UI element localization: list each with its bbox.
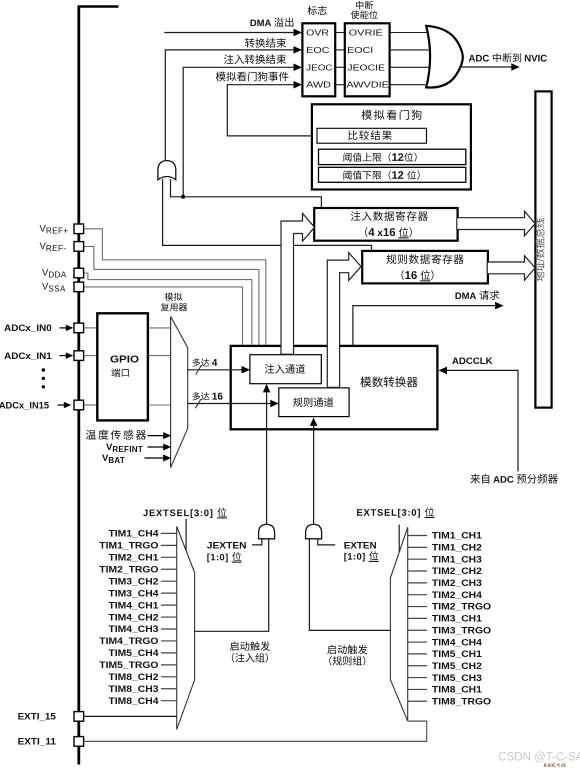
- hollow arrow regular channels to regular data register: [327, 253, 361, 388]
- svg-text:TIM2_TRGO: TIM2_TRGO: [432, 602, 491, 612]
- box injected data registers: [314, 208, 457, 241]
- wire TIM8_CH4 to injected trigger mux: [161, 700, 177, 702]
- label analog mux line2: [161, 303, 187, 311]
- label interrupt enable header line2: [351, 10, 378, 19]
- svg-text:AWVDIE: AWVDIE: [346, 80, 389, 90]
- wire OVR to OVRIE: [335, 32, 345, 34]
- wire TIM2_TRGO to injected trigger mux: [161, 568, 177, 570]
- and-gate JEXTEN injected trigger: [259, 524, 275, 538]
- svg-text:TIM3_CH2: TIM3_CH2: [108, 576, 158, 586]
- wire arrow ADCx_IN1: [60, 355, 67, 357]
- wire left bus top horizontal: [78, 5, 119, 8]
- wire GPIO to analog mux ch1: [148, 355, 171, 357]
- svg-text:OVRIE: OVRIE: [349, 28, 384, 38]
- svg-text:CSDN @T-C-SAH: CSDN @T-C-SAH: [498, 752, 580, 764]
- label analog to digital converter: [360, 377, 417, 388]
- wire VREFINT to mux: [148, 446, 165, 448]
- box analog watchdog: [312, 104, 471, 189]
- svg-text:ADCx_IN0: ADCx_IN0: [4, 323, 52, 333]
- wire TIM5_CH3 to regular trigger mux: [408, 677, 427, 679]
- pin EXTI_15: [74, 712, 84, 722]
- wire TIM5_CH2 to regular trigger mux: [408, 665, 427, 667]
- svg-text:TIM5_CH1: TIM5_CH1: [432, 649, 482, 659]
- wire JEXTSEL select line: [185, 519, 187, 551]
- label start trigger regular line1: [327, 645, 367, 654]
- svg-text:TIM5_CH4: TIM5_CH4: [108, 648, 158, 658]
- wire TIM1_CH2 to regular trigger mux: [408, 546, 427, 548]
- node JEOC junction dot: [181, 195, 185, 199]
- label low threshold (12 bits): [343, 170, 419, 179]
- svg-text:TIM8_CH4: TIM8_CH4: [108, 696, 158, 706]
- box regular data register: [362, 251, 488, 284]
- pin VREF-: [74, 242, 84, 252]
- or-gate U2 end-of-conversion: [158, 161, 176, 180]
- hollow arrow regular data register to bus: [487, 256, 535, 280]
- label 16 bits: [401, 270, 433, 281]
- svg-text:TIM2_CH3: TIM2_CH3: [432, 578, 482, 588]
- slash up-to-4: [196, 365, 202, 374]
- svg-text:TIM1_CH2: TIM1_CH2: [432, 543, 482, 553]
- wire ADCx_IN0 pin to GPIO: [84, 327, 98, 329]
- label injected channels: [265, 364, 305, 373]
- wire injected trigger gate to injected channels: [266, 391, 268, 524]
- wire TIM1_CH4 to injected trigger mux: [161, 532, 177, 534]
- bus bar address/data bus: [535, 91, 551, 407]
- label regular channels: [293, 397, 333, 407]
- svg-text:TIM4_TRGO: TIM4_TRGO: [99, 636, 158, 646]
- label analog watchdog: [362, 110, 422, 120]
- wire JEXTEN to gate: [252, 539, 262, 545]
- hollow arrow injected channels to injected data registers: [281, 213, 315, 354]
- box GPIO port: [97, 313, 148, 420]
- wire TIM1_CH1 to regular trigger mux: [408, 535, 427, 537]
- svg-text:TIM5_CH2: TIM5_CH2: [432, 661, 482, 671]
- svg-text:TIM5_CH3: TIM5_CH3: [432, 673, 482, 683]
- wire VBAT to mux: [145, 457, 165, 459]
- label temperature sensor: [86, 430, 146, 440]
- wire EXTI_11 to regular trigger mux: [84, 721, 427, 741]
- box flags: [302, 23, 335, 96]
- wire JEOCIE to or-gate: [390, 66, 430, 68]
- svg-text:TIM2_CH2: TIM2_CH2: [432, 566, 482, 576]
- wire VDDA to ADC: [84, 273, 252, 345]
- pin ADCx_IN0: [74, 323, 84, 333]
- wire TIM4_CH1 to injected trigger mux: [161, 604, 177, 606]
- wire JEOC injected-conversion-end to JEOC flag: [183, 67, 295, 197]
- box low threshold: [319, 167, 466, 182]
- wire DMA overflow to OVR flag: [164, 32, 295, 34]
- wire analog watchdog event to AWD flag: [227, 85, 312, 136]
- label compare result: [348, 130, 391, 140]
- wire TIM3_TRGO to regular trigger mux: [408, 629, 427, 631]
- wire GPIO to analog mux ch0: [148, 327, 171, 329]
- wire TIM5_TRGO to injected trigger mux: [161, 664, 177, 666]
- label EXTSEL bits: [357, 507, 434, 518]
- svg-text:TIM4_CH3: TIM4_CH3: [108, 624, 158, 634]
- svg-text:ADCCLK: ADCCLK: [452, 356, 493, 366]
- label JEXTSEL bits: [143, 508, 227, 519]
- label flags header: [307, 6, 326, 15]
- wire ADCCLK from prescaler: [445, 370, 518, 471]
- wire TIM4_CH4 to regular trigger mux: [408, 641, 427, 643]
- wire OVRIE to or-gate: [390, 32, 429, 34]
- wire VSSA to ADC: [84, 287, 243, 345]
- label ADC interrupt to NVIC: [469, 53, 547, 62]
- box compare result: [317, 128, 427, 143]
- slash up-to-16: [196, 399, 202, 408]
- label JEXTEN bits: [207, 552, 241, 563]
- svg-text:AWD: AWD: [306, 80, 331, 90]
- label high threshold (12 bits): [343, 152, 416, 161]
- wire TIM2_CH2 to regular trigger mux: [408, 570, 427, 572]
- wire temperature sensor to mux: [148, 435, 165, 437]
- wire DMA request: [353, 306, 496, 346]
- wire arrow ADCx_IN15: [58, 404, 65, 406]
- label interrupt enable header line1: [356, 1, 373, 10]
- wire TIM5_CH1 to regular trigger mux: [408, 653, 427, 655]
- wire TIM8_TRGO to regular trigger mux: [408, 700, 427, 702]
- svg-text:ADCx_IN1: ADCx_IN1: [4, 351, 52, 361]
- wire VREF- to ADC: [84, 246, 259, 345]
- svg-text:TIM8_TRGO: TIM8_TRGO: [432, 696, 491, 706]
- wire left bus vertical: [77, 7, 80, 765]
- svg-text:EXTI_11: EXTI_11: [18, 737, 56, 747]
- wire TIM2_CH3 to regular trigger mux: [408, 582, 427, 584]
- wire TIM8_CH2 to injected trigger mux: [161, 676, 177, 678]
- wire EOC to EOCI: [335, 49, 345, 51]
- wire EOCI to or-gate: [390, 49, 430, 51]
- pin EXTI_11: [74, 737, 84, 747]
- label conversion end: [245, 38, 286, 48]
- box analog to digital converter: [231, 346, 438, 429]
- wire up-to-16 mux to regular channels: [188, 403, 273, 405]
- wire JEOC to JEOCIE: [335, 66, 345, 68]
- wire or-gate input from regular data register top: [163, 179, 372, 251]
- wire VREF+ to ADC: [84, 229, 266, 345]
- box high threshold: [319, 149, 466, 164]
- label injected conversion end: [224, 54, 286, 64]
- svg-text:JEXTEN: JEXTEN: [207, 540, 247, 550]
- svg-text:TIM2_CH1: TIM2_CH1: [108, 553, 158, 563]
- label GPIO port cn: [111, 368, 128, 377]
- pin VREF+: [74, 224, 84, 234]
- box injected channels: [250, 355, 321, 384]
- label from ADC prescaler: [470, 474, 557, 484]
- trigger mux regular group trapezoid: [390, 527, 407, 721]
- wire AWD to AWVDIE: [335, 84, 345, 86]
- wire regular trigger gate to regular channels: [313, 425, 315, 524]
- wire ADC interrupt to NVIC: [462, 66, 512, 68]
- svg-text:M519: M519: [544, 762, 567, 767]
- svg-text:TIM4_CH2: TIM4_CH2: [108, 612, 158, 622]
- svg-text:TIM1_CH1: TIM1_CH1: [432, 531, 482, 541]
- svg-text:JEOCIE: JEOCIE: [347, 62, 385, 72]
- label analog mux line1: [165, 293, 182, 301]
- svg-text:TIM3_CH1: TIM3_CH1: [432, 614, 482, 624]
- svg-text:TIM1_TRGO: TIM1_TRGO: [99, 541, 158, 551]
- wire TIM8_CH1 to regular trigger mux: [408, 688, 427, 690]
- svg-text:TIM8_CH3: TIM8_CH3: [108, 684, 158, 694]
- wire EOC or-gate output to EOC flag: [165, 50, 295, 160]
- svg-text:ADCx_IN15: ADCx_IN15: [0, 400, 49, 410]
- trigger mux injected group trapezoid: [177, 527, 195, 730]
- svg-text:OVR: OVR: [306, 28, 329, 38]
- wire EXTEN to gate: [318, 539, 336, 545]
- pin VDDA: [74, 268, 84, 278]
- svg-text:EXTI_15: EXTI_15: [18, 712, 56, 722]
- label analog watchdog event: [216, 72, 289, 82]
- svg-text:TIM2_CH4: TIM2_CH4: [432, 590, 482, 600]
- wire TIM4_TRGO to injected trigger mux: [161, 640, 177, 642]
- wire TIM5_CH4 to injected trigger mux: [161, 652, 177, 654]
- svg-text:TIM4_CH1: TIM4_CH1: [108, 600, 158, 610]
- wire ADCx_IN1 pin to GPIO: [84, 355, 98, 357]
- wire TIM3_CH2 to injected trigger mux: [161, 580, 177, 582]
- wire arrow ADCx_IN0: [60, 327, 67, 329]
- svg-text:EOC: EOC: [306, 45, 329, 55]
- wire AWVDIE to or-gate: [390, 84, 429, 86]
- svg-text:TIM5_TRGO: TIM5_TRGO: [99, 660, 158, 670]
- box interrupt enable bits: [345, 23, 390, 96]
- label 4x16 bits: [365, 227, 412, 238]
- wire EXTSEL select line: [398, 525, 400, 552]
- wire EXTI_15 to injected trigger mux: [84, 715, 177, 717]
- svg-text:TIM4_CH4: TIM4_CH4: [432, 637, 482, 647]
- and-gate EXTEN regular trigger: [306, 524, 322, 538]
- hollow arrow injected data registers to bus: [457, 211, 535, 235]
- pin ADCx_IN15: [74, 400, 84, 410]
- wire TIM1_CH3 to regular trigger mux: [408, 558, 427, 560]
- svg-text:TIM3_CH4: TIM3_CH4: [108, 588, 158, 598]
- label DMA overflow: [251, 17, 294, 26]
- wire TIM2_CH1 to injected trigger mux: [161, 556, 177, 558]
- wire injected mux output to gate: [195, 539, 269, 632]
- svg-text:TIM8_CH1: TIM8_CH1: [432, 685, 482, 695]
- label start trigger regular line2: [329, 656, 365, 666]
- wire TIM4_CH2 to injected trigger mux: [161, 616, 177, 618]
- label up to 4: [192, 358, 217, 366]
- label start trigger injected line1: [230, 641, 270, 650]
- label DMA request: [456, 290, 500, 299]
- svg-text:JEOC: JEOC: [306, 62, 332, 72]
- pin ADCx_IN1: [74, 351, 84, 361]
- label address/data bus: [535, 218, 544, 281]
- dots ellipsis ADC inputs: [42, 368, 45, 371]
- wire ADCx_IN15 pin to GPIO: [84, 404, 98, 406]
- svg-text:TIM8_CH2: TIM8_CH2: [108, 672, 158, 682]
- svg-text:TIM1_CH4: TIM1_CH4: [108, 529, 158, 539]
- wire TIM1_TRGO to injected trigger mux: [161, 544, 177, 546]
- label start trigger injected line2: [232, 653, 268, 663]
- wire GPIO to analog mux ch15: [148, 404, 171, 406]
- svg-text:TIM1_CH3: TIM1_CH3: [432, 554, 482, 564]
- wire up-to-4 mux to injected channels: [188, 369, 244, 371]
- label EXTEN bits: [344, 551, 378, 562]
- svg-text:GPIO: GPIO: [110, 355, 139, 366]
- svg-text:EOCI: EOCI: [347, 45, 373, 55]
- wire TIM4_CH3 to injected trigger mux: [161, 628, 177, 630]
- or-gate U1 ADC interrupt: [426, 26, 463, 88]
- svg-text:EXTEN: EXTEN: [344, 540, 377, 550]
- wire TIM2_TRGO to regular trigger mux: [408, 606, 427, 608]
- label up to 16: [192, 392, 222, 400]
- analog mux trapezoid: [171, 316, 188, 467]
- box regular channels: [279, 388, 349, 417]
- wire TIM2_CH4 to regular trigger mux: [408, 594, 427, 596]
- svg-text:TIM3_TRGO: TIM3_TRGO: [432, 625, 491, 635]
- label injected data registers: [351, 211, 428, 221]
- wire or-gate input from injected data register top: [171, 179, 322, 209]
- wire TIM8_CH3 to injected trigger mux: [161, 688, 177, 690]
- label regular data register: [386, 254, 463, 264]
- wire regular mux output to gate: [309, 539, 390, 631]
- wire TIM3_CH1 to regular trigger mux: [408, 617, 427, 619]
- pin VSSA: [74, 282, 84, 292]
- wire TIM3_CH4 to injected trigger mux: [161, 592, 177, 594]
- svg-text:TIM2_TRGO: TIM2_TRGO: [99, 564, 158, 574]
